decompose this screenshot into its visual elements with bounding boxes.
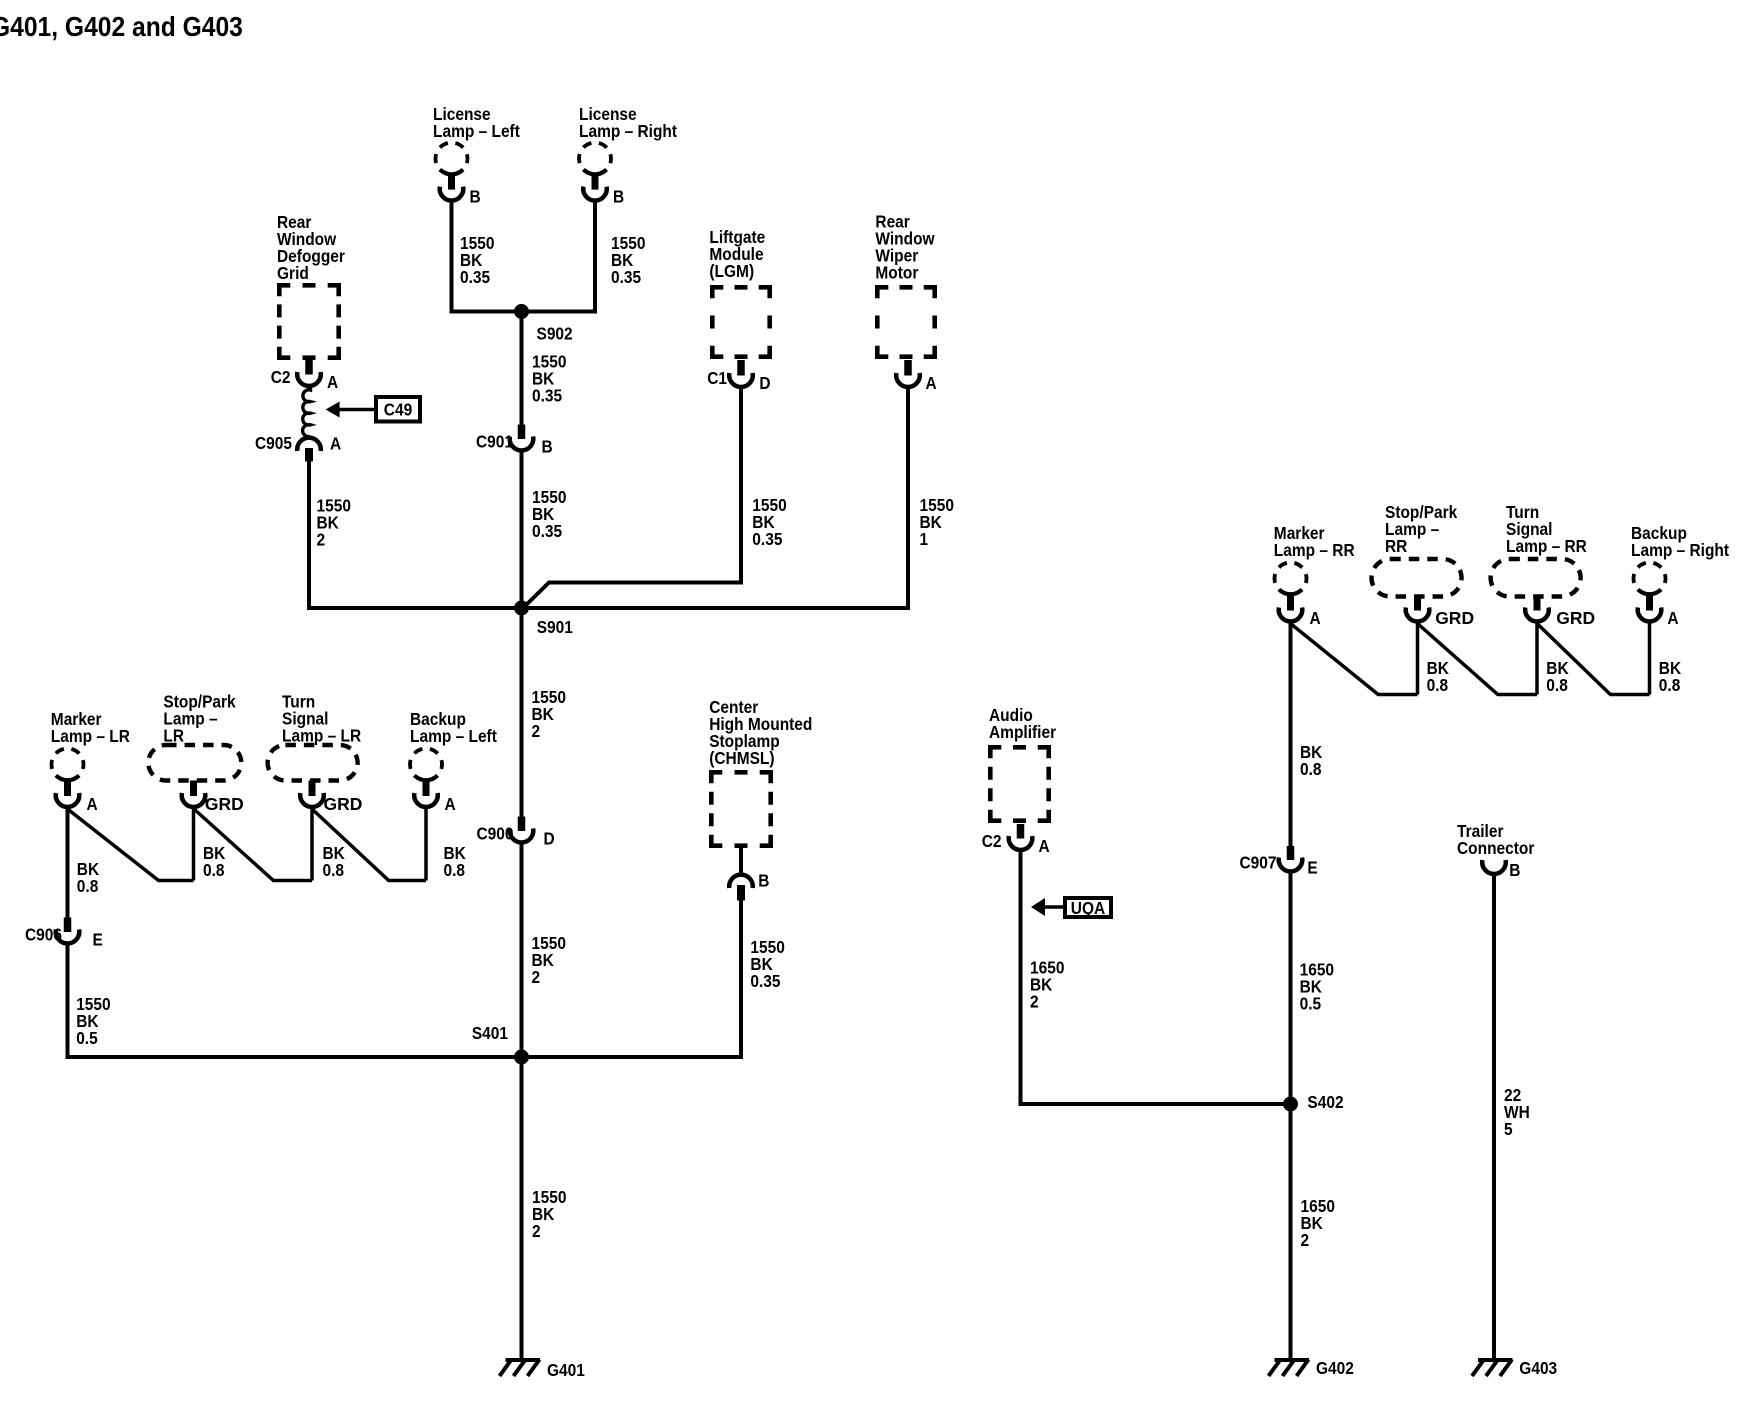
label Backup Lamp - Right xyxy=(1631,523,1730,560)
lamp License Lamp - Left xyxy=(436,143,468,201)
svg-text:C907: C907 xyxy=(1239,853,1276,873)
label BK 0.8 (marker RR wire) xyxy=(1300,742,1322,779)
ground G401 xyxy=(500,1360,541,1377)
callout arrow UQA xyxy=(1031,898,1065,916)
svg-text:0.35: 0.35 xyxy=(532,385,562,405)
svg-text:2: 2 xyxy=(532,967,541,987)
label C906 xyxy=(25,925,62,945)
callout box C49 xyxy=(376,397,420,422)
lamp Turn Signal Lamp - LR xyxy=(268,745,358,807)
svg-text:A: A xyxy=(87,794,98,814)
svg-text:GRD: GRD xyxy=(324,794,363,814)
connector C905 pin A xyxy=(297,438,321,462)
svg-text:0.35: 0.35 xyxy=(611,267,641,287)
svg-text:0.8: 0.8 xyxy=(203,860,225,880)
svg-text:0.8: 0.8 xyxy=(444,860,466,880)
svg-text:0.8: 0.8 xyxy=(1546,675,1568,695)
svg-text:0.35: 0.35 xyxy=(752,529,782,549)
svg-text:0.8: 0.8 xyxy=(323,860,345,880)
svg-text:A: A xyxy=(330,434,341,454)
wire audio amp to S402 xyxy=(1021,852,1291,1105)
label 1650 BK 0.5 (C907 wire) xyxy=(1300,960,1334,1014)
label S902 xyxy=(537,324,573,344)
lamp Marker Lamp - LR xyxy=(52,749,84,807)
svg-text:GRD: GRD xyxy=(1435,608,1474,628)
svg-text:C905: C905 xyxy=(255,433,292,453)
wire stop/park RR vertical xyxy=(1416,624,1420,695)
label C905 xyxy=(255,433,292,453)
svg-text:G402: G402 xyxy=(1316,1358,1354,1378)
svg-text:C906: C906 xyxy=(25,925,62,945)
svg-text:LR: LR xyxy=(163,726,184,746)
svg-text:D: D xyxy=(759,373,770,393)
label 1550 BK 2 (C900-S401) xyxy=(532,933,566,987)
wire backup left vertical xyxy=(424,809,428,881)
connector C901 pin B xyxy=(510,425,534,451)
svg-text:B: B xyxy=(1509,860,1520,880)
svg-text:0.8: 0.8 xyxy=(77,876,99,896)
label 1550 BK 0.35 (S902-C901) xyxy=(532,351,566,405)
label 1550 BK 0.35 (CHMSL wire) xyxy=(750,937,784,991)
svg-text:C901: C901 xyxy=(476,432,513,452)
label Marker Lamp - LR xyxy=(51,709,130,746)
wire marker RR ground chain diagonal xyxy=(1291,624,1418,695)
svg-text:G401: G401 xyxy=(547,1360,585,1380)
svg-text:B: B xyxy=(758,871,769,891)
wire marker LR ground chain diagonal xyxy=(68,809,194,881)
svg-text:0.5: 0.5 xyxy=(76,1028,98,1048)
wire C907 to S402 xyxy=(1289,873,1293,1104)
connector C1 pin D (LGM) xyxy=(729,360,753,387)
svg-text:E: E xyxy=(1307,858,1317,878)
splice S901 xyxy=(514,601,529,616)
svg-text:A: A xyxy=(445,794,456,814)
label BK 0.8 (turn LR) xyxy=(323,843,345,880)
label C2 (audio) xyxy=(982,831,1002,851)
connector C2 pin A (audio amplifier) xyxy=(1009,824,1033,850)
wire C905 to S901 xyxy=(309,462,522,609)
label A (wiper) xyxy=(926,373,937,393)
wire turn RR diagonal xyxy=(1537,624,1650,695)
svg-text:0.8: 0.8 xyxy=(1300,759,1322,779)
svg-text:2: 2 xyxy=(532,721,541,741)
label 1550 BK 0.35 (license right) xyxy=(611,233,645,287)
label 1550 BK 2 (S401-G401) xyxy=(532,1187,566,1241)
lamp Backup Lamp - Left xyxy=(410,749,442,807)
wire wiper motor to S901 xyxy=(522,389,909,608)
svg-text:C2: C2 xyxy=(271,367,291,387)
label 1550 BK 2 (S901-C900) xyxy=(532,687,566,741)
label Liftgate Module (LGM) xyxy=(709,227,765,281)
wire S902 to C901 xyxy=(520,312,524,425)
label G401 xyxy=(547,1360,585,1380)
connector C907 pin E xyxy=(1279,846,1303,871)
svg-text:C1: C1 xyxy=(707,368,727,388)
label G403 xyxy=(1519,1358,1557,1378)
wire turn RR vertical xyxy=(1535,624,1539,695)
callout box UQA xyxy=(1065,898,1111,918)
svg-text:Lamp – RR: Lamp – RR xyxy=(1274,540,1355,560)
connector C906 pin E xyxy=(56,918,80,944)
component Rear Window Defogger Grid box xyxy=(279,285,338,357)
label BK 0.8 (turn RR) xyxy=(1546,658,1568,695)
label C1 xyxy=(707,368,727,388)
svg-text:D: D xyxy=(544,829,555,849)
label Turn Signal Lamp - LR xyxy=(282,692,361,746)
wire License Left to S902 xyxy=(452,203,522,312)
svg-text:Lamp – LR: Lamp – LR xyxy=(51,726,130,746)
wire marker LR to C906 xyxy=(66,809,70,918)
svg-text:(LGM): (LGM) xyxy=(709,261,754,281)
label BK 0.8 (stop RR) xyxy=(1427,658,1449,695)
lamp Stop/Park Lamp - LR xyxy=(148,745,241,807)
label S401 xyxy=(472,1023,508,1043)
wire turn LR diagonal xyxy=(312,809,426,881)
label License Lamp - Right xyxy=(579,104,678,141)
pin A (backup right) xyxy=(1667,608,1678,628)
svg-text:1: 1 xyxy=(920,529,929,549)
label Turn Signal Lamp - RR xyxy=(1506,502,1587,556)
wire stop/park RR diagonal xyxy=(1418,624,1538,695)
label 1550 BK 1 (wiper wire) xyxy=(920,495,954,549)
lamp License Lamp - Right xyxy=(579,143,611,201)
connector pin B (trailer connector) xyxy=(1482,860,1506,874)
wire C906 to S401 xyxy=(68,945,522,1057)
pin B of License Lamp - Left xyxy=(470,187,481,207)
svg-text:2: 2 xyxy=(317,530,326,550)
splice S402 xyxy=(1283,1097,1298,1112)
wire backup right vertical xyxy=(1648,624,1652,695)
label Center High Mounted Stoplamp (CHMSL) xyxy=(709,697,812,768)
wire License Right to S902 xyxy=(522,203,596,312)
component Audio Amplifier box xyxy=(990,747,1048,820)
wire C900 to S401 xyxy=(520,844,524,1057)
wire S402 to G402 xyxy=(1289,1104,1293,1360)
label License Lamp - Left xyxy=(433,104,520,141)
pin A (marker RR) xyxy=(1310,608,1321,628)
lamp Backup Lamp - Right xyxy=(1634,563,1666,622)
wire LGM to S901 xyxy=(524,389,741,607)
svg-text:E: E xyxy=(93,930,103,950)
label D (C900) xyxy=(544,829,555,849)
wire stop/park LR diagonal xyxy=(194,809,312,881)
svg-text:RR: RR xyxy=(1385,536,1407,556)
wire C901 to S901 xyxy=(520,452,524,608)
wire turn LR vertical xyxy=(310,809,314,881)
label C2 xyxy=(271,367,291,387)
svg-text:0.8: 0.8 xyxy=(1659,675,1681,695)
svg-text:Lamp – Right: Lamp – Right xyxy=(1631,540,1730,560)
svg-text:S901: S901 xyxy=(537,617,573,637)
label A (C2) xyxy=(327,372,338,392)
pin GRD (turn LR) xyxy=(324,794,363,814)
pin A (marker LR) xyxy=(87,794,98,814)
label B (CHMSL) xyxy=(758,871,769,891)
svg-text:A: A xyxy=(1310,608,1321,628)
label 1550 BK 0.5 (C906 wire) xyxy=(76,994,110,1048)
connector C900 pin D xyxy=(510,817,534,843)
svg-text:Connector: Connector xyxy=(1457,838,1535,858)
label Rear Window Defogger Grid xyxy=(277,212,345,283)
svg-text:0.35: 0.35 xyxy=(750,971,780,991)
ground G402 xyxy=(1269,1360,1310,1377)
pin GRD (stop/park RR) xyxy=(1435,608,1474,628)
svg-text:A: A xyxy=(926,373,937,393)
label Audio Amplifier xyxy=(989,705,1057,742)
connector C2 pin A (defogger) xyxy=(297,360,321,386)
label 1650 BK 2 (S402-G402) xyxy=(1301,1196,1335,1250)
callout arrow C49 xyxy=(326,402,376,418)
svg-text:A: A xyxy=(327,372,338,392)
svg-text:B: B xyxy=(542,437,553,457)
svg-text:Lamp – LR: Lamp – LR xyxy=(282,726,361,746)
label D (C1) xyxy=(759,373,770,393)
svg-text:C49: C49 xyxy=(384,400,412,420)
svg-text:GRD: GRD xyxy=(205,794,244,814)
svg-text:A: A xyxy=(1039,836,1050,856)
coil defogger grid element xyxy=(303,388,311,437)
svg-text:Lamp – Left: Lamp – Left xyxy=(410,726,497,746)
wire CHMSL to S401 xyxy=(522,901,742,1058)
label BK 0.8 (marker LR) xyxy=(77,859,99,896)
label 1550 BK 0.35 (C901-S901) xyxy=(532,487,566,541)
label 1550 BK 0.35 (license left) xyxy=(460,233,494,287)
component Liftgate Module box xyxy=(712,287,769,356)
label E (C907) xyxy=(1307,858,1317,878)
title xyxy=(0,10,243,42)
label 22 WH 5 (trailer wire) xyxy=(1504,1085,1530,1139)
pin GRD (stop/park LR) xyxy=(205,794,244,814)
lamp Marker Lamp - RR xyxy=(1275,563,1307,622)
wire CHMSL box to connector xyxy=(739,848,743,873)
svg-text:G403: G403 xyxy=(1519,1358,1557,1378)
svg-text:0.35: 0.35 xyxy=(532,521,562,541)
label Rear Window Wiper Motor xyxy=(875,212,934,283)
connector pin B (CHMSL) xyxy=(729,875,753,901)
ground G403 xyxy=(1472,1360,1513,1377)
component CHMSL box xyxy=(711,772,770,845)
splice S401 xyxy=(514,1050,529,1065)
svg-text:5: 5 xyxy=(1504,1119,1513,1139)
label S402 xyxy=(1307,1092,1343,1112)
svg-text:G401, G402 and G403: G401, G402 and G403 xyxy=(0,10,243,42)
svg-text:S402: S402 xyxy=(1307,1092,1343,1112)
splice S902 xyxy=(514,304,529,319)
svg-text:0.5: 0.5 xyxy=(1300,994,1322,1014)
label C901 xyxy=(476,432,513,452)
label BK 0.8 (stop LR) xyxy=(203,843,225,880)
svg-text:0.8: 0.8 xyxy=(1427,675,1449,695)
label Stop/Park Lamp - LR xyxy=(163,692,236,746)
svg-text:2: 2 xyxy=(532,1221,541,1241)
label C907 xyxy=(1239,853,1276,873)
label BK 0.8 (backup left) xyxy=(444,843,466,880)
svg-text:Amplifier: Amplifier xyxy=(989,722,1057,742)
svg-text:UQA: UQA xyxy=(1071,898,1105,918)
label A (audio C2) xyxy=(1039,836,1050,856)
svg-text:GRD: GRD xyxy=(1556,608,1595,628)
label B (C901) xyxy=(542,437,553,457)
label B (trailer) xyxy=(1509,860,1520,880)
wire marker RR to C907 xyxy=(1289,624,1293,847)
label Trailer Connector xyxy=(1457,821,1535,858)
label 1550 BK 2 (defogger wire) xyxy=(317,496,351,550)
label 1550 BK 0.35 (LGM wire) xyxy=(752,495,786,549)
svg-text:B: B xyxy=(613,187,624,207)
lamp Turn Signal Lamp - RR xyxy=(1491,559,1581,621)
svg-text:2: 2 xyxy=(1301,1230,1310,1250)
pin GRD (turn RR) xyxy=(1556,608,1595,628)
label 1650 BK 2 (audio wire) xyxy=(1030,958,1064,1012)
label G402 xyxy=(1316,1358,1354,1378)
svg-text:S902: S902 xyxy=(537,324,573,344)
wire S901 to C900 xyxy=(520,608,524,817)
svg-text:Lamp – RR: Lamp – RR xyxy=(1506,536,1587,556)
label C900 xyxy=(476,824,513,844)
svg-text:C2: C2 xyxy=(982,831,1002,851)
wire S401 to G401 xyxy=(520,1057,524,1360)
label BK 0.8 (backup right) xyxy=(1659,658,1681,695)
svg-text:C900: C900 xyxy=(476,824,513,844)
lamp Stop/Park Lamp - RR xyxy=(1372,559,1462,621)
label A (C905) xyxy=(330,434,341,454)
svg-text:S401: S401 xyxy=(472,1023,508,1043)
wire stop/park LR vertical xyxy=(192,809,196,881)
svg-text:Motor: Motor xyxy=(875,263,919,283)
svg-text:Lamp – Right: Lamp – Right xyxy=(579,121,678,141)
label E (C906) xyxy=(93,930,103,950)
component Rear Window Wiper Motor box xyxy=(877,287,934,356)
label Marker Lamp - RR xyxy=(1274,523,1355,560)
wire trailer connector to G403 xyxy=(1492,876,1496,1360)
svg-text:A: A xyxy=(1667,608,1678,628)
svg-text:Lamp – Left: Lamp – Left xyxy=(433,121,520,141)
label Stop/Park Lamp - RR xyxy=(1385,502,1458,556)
pin A (backup left) xyxy=(445,794,456,814)
pin B of License Lamp - Right xyxy=(613,187,624,207)
svg-text:B: B xyxy=(470,187,481,207)
svg-text:(CHMSL): (CHMSL) xyxy=(709,748,774,768)
connector pin A (wiper motor) xyxy=(896,360,920,387)
label Backup Lamp - Left xyxy=(410,709,497,746)
svg-text:2: 2 xyxy=(1030,992,1039,1012)
svg-text:0.35: 0.35 xyxy=(460,267,490,287)
svg-text:Grid: Grid xyxy=(277,263,309,283)
label S901 xyxy=(537,617,573,637)
